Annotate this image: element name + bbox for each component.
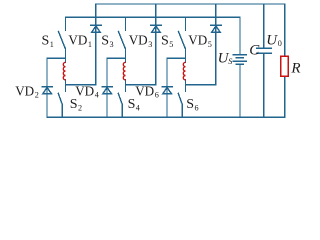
svg-text:VD: VD [68,33,87,48]
svg-text:S: S [186,97,194,112]
svg-text:S: S [42,33,50,48]
svg-text:S: S [70,97,78,112]
svg-text:2: 2 [35,91,39,100]
svg-text:1: 1 [50,40,54,49]
svg-text:VD: VD [129,33,148,48]
svg-text:3: 3 [110,40,114,49]
svg-text:VD: VD [15,84,34,99]
svg-text:0: 0 [278,39,282,48]
svg-text:6: 6 [155,91,159,100]
svg-text:6: 6 [195,103,199,112]
svg-text:S: S [101,33,109,48]
svg-text:5: 5 [208,40,212,49]
svg-text:2: 2 [78,103,82,112]
svg-text:C: C [249,42,260,58]
svg-text:VD: VD [135,84,154,99]
svg-text:1: 1 [88,40,92,49]
svg-text:R: R [290,60,300,76]
svg-text:VD: VD [75,84,94,99]
svg-text:4: 4 [95,91,99,100]
svg-text:VD: VD [188,33,207,48]
svg-text:S: S [128,97,136,112]
svg-text:S: S [228,57,232,66]
svg-text:3: 3 [148,40,152,49]
svg-text:4: 4 [136,103,140,112]
svg-text:S: S [161,33,169,48]
svg-text:5: 5 [169,40,173,49]
svg-text:U: U [266,32,278,48]
